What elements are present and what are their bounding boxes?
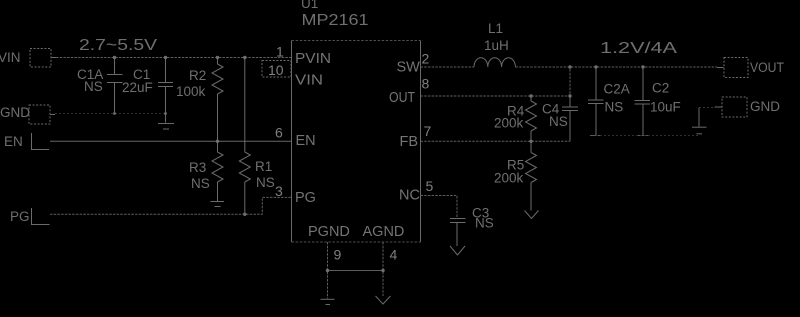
svg-text:R3: R3: [189, 160, 206, 175]
capacitor C1A: [107, 58, 123, 114]
ground right: [692, 108, 707, 134]
ground arrow under R5: [525, 211, 539, 219]
svg-text:22uF: 22uF: [122, 80, 153, 95]
svg-text:C2: C2: [652, 81, 669, 96]
wire tick C2 bottom: [637, 135, 649, 137]
svg-text:AGND: AGND: [363, 224, 405, 240]
svg-text:L1: L1: [488, 21, 503, 36]
svg-text:SW: SW: [397, 60, 421, 76]
svg-text:C2A: C2A: [604, 82, 630, 97]
junction dots input: [113, 56, 247, 216]
svg-text:3: 3: [275, 183, 283, 199]
capacitor C4: [562, 96, 578, 141]
wire FB: [421, 140, 571, 142]
wire tick C2A bottom: [590, 135, 602, 137]
terminal VIN: [30, 49, 56, 68]
svg-text:VOUT: VOUT: [750, 60, 784, 75]
wire VOUT rail: [516, 66, 718, 68]
svg-text:1.2V/4A: 1.2V/4A: [600, 40, 677, 57]
wire OUT: [421, 67, 571, 96]
svg-text:FB: FB: [400, 134, 419, 150]
svg-text:U1: U1: [301, 0, 318, 11]
capacitor C1: [158, 58, 173, 123]
wire gnd net left: [55, 113, 166, 115]
resistor R4: [526, 96, 537, 141]
svg-text:PVIN: PVIN: [295, 51, 331, 67]
svg-text:8: 8: [422, 76, 430, 92]
pin 10 boxed: [262, 61, 291, 78]
svg-text:10uF: 10uF: [650, 100, 681, 115]
svg-text:1: 1: [276, 44, 284, 60]
terminal GND right: [715, 97, 748, 117]
junction dots right: [529, 65, 644, 143]
svg-text:7: 7: [424, 123, 432, 139]
wire pgnd-agnd connector: [328, 270, 384, 272]
svg-text:GND: GND: [750, 99, 780, 114]
svg-text:NS: NS: [549, 114, 568, 129]
svg-text:GND: GND: [0, 105, 30, 120]
svg-text:1uH: 1uH: [484, 38, 509, 53]
wire VIN rail: [56, 57, 292, 59]
wire gnd net right: [596, 135, 699, 137]
wire PG: [50, 197, 292, 214]
wire SW: [421, 66, 475, 68]
svg-text:10: 10: [268, 62, 284, 78]
ground under C1: [158, 124, 174, 130]
svg-text:200k: 200k: [494, 171, 524, 186]
wire EN: [50, 140, 292, 142]
svg-text:OUT: OUT: [389, 90, 415, 106]
svg-text:200k: 200k: [494, 116, 524, 131]
capacitor C2: [635, 67, 651, 136]
svg-text:5: 5: [426, 178, 434, 194]
ground arrow under C3: [450, 246, 465, 255]
resistor R3: [212, 141, 223, 201]
svg-text:R2: R2: [189, 68, 206, 83]
svg-text:VIN: VIN: [295, 73, 323, 89]
svg-text:2.7~5.5V: 2.7~5.5V: [79, 37, 157, 54]
svg-text:NS: NS: [256, 175, 275, 190]
svg-text:2: 2: [422, 51, 430, 67]
svg-text:NC: NC: [399, 188, 420, 204]
svg-text:NS: NS: [475, 216, 494, 231]
ground under pin 9: [321, 299, 335, 304]
svg-text:9: 9: [334, 247, 342, 263]
wire PGND pin9: [327, 242, 329, 299]
svg-text:EN: EN: [4, 134, 23, 149]
terminal VOUT: [717, 58, 748, 78]
svg-text:R1: R1: [255, 159, 272, 174]
svg-text:PGND: PGND: [308, 224, 350, 240]
svg-text:PG: PG: [295, 190, 316, 206]
svg-text:EN: EN: [296, 133, 316, 149]
svg-text:4: 4: [390, 247, 398, 263]
resistor R1: [239, 58, 250, 214]
svg-text:MP2161: MP2161: [302, 12, 369, 29]
terminal GND left: [29, 105, 55, 124]
op-amp U1 chip MP2161 box: [292, 41, 421, 243]
svg-text:PG: PG: [10, 209, 30, 224]
svg-text:NS: NS: [605, 100, 624, 115]
inductor L1: [474, 58, 515, 67]
svg-text:100k: 100k: [176, 84, 206, 99]
wire NC: [421, 196, 458, 219]
wire AGND pin4: [382, 242, 384, 296]
svg-text:NS: NS: [84, 79, 103, 94]
capacitor C2A: [588, 67, 604, 136]
resistor R5: [526, 141, 537, 210]
ground under R3: [211, 202, 225, 207]
svg-text:6: 6: [275, 125, 283, 141]
ground arrow under pin 4: [376, 296, 391, 304]
svg-text:NS: NS: [191, 176, 210, 191]
resistor R2: [212, 58, 223, 141]
wire gnd stub to GND terminal: [699, 107, 714, 109]
capacitor C3: [450, 219, 466, 247]
svg-text:VIN: VIN: [0, 50, 21, 65]
